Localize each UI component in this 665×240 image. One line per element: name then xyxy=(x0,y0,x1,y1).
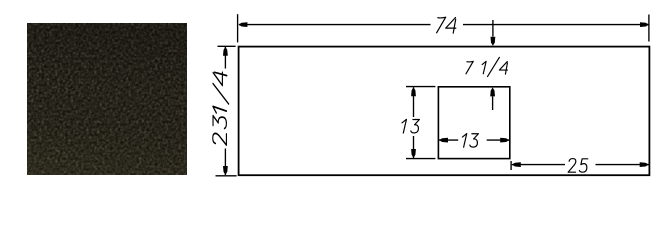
dimension 23 1/4: text "23 1/4" rotated xyxy=(213,72,229,145)
dimension 13 vertical: top extension line xyxy=(406,86,435,88)
dimension 13 vertical: bottom arrowhead xyxy=(411,149,416,158)
dimension 23 1/4: dimension line (broken for text) xyxy=(224,47,226,175)
dimension 13 vertical: text "13" xyxy=(402,119,419,133)
dimension 74: dimension line (broken for text) xyxy=(239,24,649,26)
dimension 23 1/4: top arrowhead xyxy=(223,47,228,56)
dimension 25: left extension line xyxy=(510,161,512,170)
dimension 74: left arrowhead xyxy=(238,22,247,27)
dimension 13 vertical: bottom extension line xyxy=(406,158,435,160)
dimension 7 1/4: upper leader with down arrowhead xyxy=(492,20,494,37)
dimension 25: right arrowhead xyxy=(640,162,649,167)
dimension 23 1/4: bottom arrowhead xyxy=(223,166,228,175)
dimension 13 horizontal: right arrowhead xyxy=(500,138,509,143)
dimension 23 1/4: top extension line xyxy=(218,45,236,47)
dimension 23 1/4: bottom extension line xyxy=(216,175,237,177)
sink cutout square xyxy=(438,87,509,159)
countertop outline rectangle xyxy=(239,47,650,176)
dimension 25: dimension line (broken for text) xyxy=(512,164,649,166)
dimension 13 vertical: top arrowhead xyxy=(411,87,416,96)
dimension 74: right arrowhead xyxy=(640,22,649,27)
dimension 74: text "74" xyxy=(437,17,456,33)
dimension 7 1/4: text "7 1/4" xyxy=(466,57,508,76)
dimension 25: text "25" xyxy=(568,159,588,173)
dimension 13 horizontal: left arrowhead xyxy=(439,138,448,143)
material swatch (dark textured sample) xyxy=(27,23,187,175)
dimension 13 vertical: dimension line (broken for text) xyxy=(413,87,415,158)
dimension 13 horizontal: dimension line (broken for text) xyxy=(439,139,510,141)
dimension 13 horizontal: text "13" xyxy=(462,134,478,148)
dimension 25: left arrowhead xyxy=(512,162,521,167)
dimension 74: left extension line xyxy=(237,14,239,42)
dimension 7 1/4: lower leader with up arrowhead xyxy=(492,97,494,111)
dimension 74: right extension line xyxy=(648,15,650,42)
